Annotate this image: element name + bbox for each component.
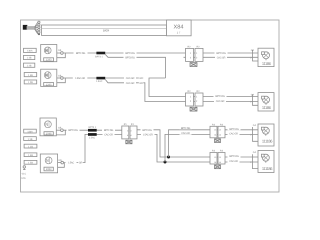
svg-text:BPT2-RG: BPT2-RG (125, 52, 135, 55)
harness end dot (38, 33, 40, 35)
connector tag 2B (24, 80, 37, 84)
svg-text:BPT2-RG: BPT2-RG (104, 129, 114, 132)
earth symbol (23, 166, 26, 170)
svg-text:1 7: 1 7 (177, 31, 181, 34)
wire Q color tag (78, 161, 83, 164)
shielding splice 3 (88, 129, 97, 132)
wire Q label 1 (66, 161, 77, 164)
harness loom box B424 (42, 25, 167, 35)
connector tag 1C (24, 63, 35, 67)
lamp 6 connector bracket (253, 154, 259, 168)
svg-text:1.5AC: 1.5AC (68, 162, 74, 165)
injector 2 connector bracket (253, 94, 259, 105)
connector R34 lower code box (215, 165, 221, 169)
svg-text:130A: 130A (27, 130, 33, 133)
svg-text:BPT3-RG: BPT3-RG (125, 56, 135, 59)
lamp 6 symbol (261, 154, 269, 163)
injector 1 connector bracket (253, 50, 259, 61)
svg-text:GR: GR (139, 82, 143, 85)
svg-text:X84: X84 (174, 25, 184, 31)
wire C label 2 (124, 77, 136, 80)
inline connector R107 (122, 123, 137, 139)
label BPT2-RG out6 (228, 155, 241, 158)
sensor 1295 symbol (44, 72, 51, 79)
sensor4 return loop (58, 163, 65, 168)
branch Q label (180, 132, 192, 135)
lamp 5 symbol (261, 127, 269, 136)
svg-text:CAC-GR: CAC-GR (181, 132, 190, 135)
pin bubble sensor3 (61, 129, 64, 132)
junction dot net Q (164, 161, 167, 164)
wire Q out of R107 (137, 134, 210, 162)
label CAC-GR out6 (228, 160, 240, 163)
svg-text:GA: GA (251, 93, 255, 96)
wire P label 2 (102, 129, 115, 132)
svg-text:1 3B: 1 3B (27, 57, 32, 60)
svg-text:1.5AC-GR: 1.5AC-GR (75, 77, 85, 80)
wire B label (124, 56, 137, 59)
pin stub sensor3 (56, 129, 60, 131)
wire P out label (141, 128, 154, 131)
svg-text:GA: GA (251, 49, 255, 52)
pin bubble sensor1 (61, 52, 64, 55)
svg-text:111186: 111186 (262, 166, 273, 171)
svg-text:1.5AC: 1.5AC (96, 80, 103, 83)
svg-text:CAC-GR: CAC-GR (229, 133, 238, 136)
svg-text:1048: 1048 (46, 133, 52, 136)
wire A label 2 (124, 52, 137, 55)
sensor2 return loop (57, 78, 66, 83)
svg-text:1 2B: 1 2B (27, 64, 32, 67)
inline connector R34 upper (210, 124, 225, 138)
harness ring terminals (38, 21, 40, 33)
injector 1 box (258, 48, 274, 66)
svg-text:GR: GR (139, 77, 143, 80)
wire P out of R107 (137, 130, 210, 157)
sensor 1083 symbol (45, 157, 52, 164)
svg-text:CAC-GR: CAC-GR (126, 77, 135, 80)
svg-text:11186: 11186 (262, 61, 272, 66)
svg-text:BPT2-RG: BPT2-RG (181, 127, 191, 130)
harness connector block (black) (23, 25, 28, 30)
svg-text:1 3B: 1 3B (28, 138, 33, 141)
wire net P (BPT2-RG) to R107 (63, 129, 122, 131)
svg-text:GR: GR (79, 162, 83, 165)
svg-text:CAC-GR: CAC-GR (216, 100, 225, 103)
svg-text:-11C: -11C (21, 172, 26, 175)
lamp 6 box (258, 151, 274, 173)
svg-text:1 6B: 1 6B (28, 154, 33, 157)
shielding splice 2 (96, 77, 105, 80)
svg-text:BPT2-RG: BPT2-RG (142, 129, 152, 132)
svg-text:BPT2-RG: BPT2-RG (229, 155, 239, 158)
svg-text:1.5AC-GR: 1.5AC-GR (143, 133, 153, 136)
sensor 1295 box (41, 69, 57, 86)
wire to injector2 pin2 (203, 101, 253, 103)
pin stub sensor4 (58, 162, 61, 164)
svg-text:CAC-GR: CAC-GR (104, 133, 113, 136)
wire R34 to lamp5 pin2 (225, 133, 253, 135)
svg-text:CAC-GR: CAC-GR (217, 56, 226, 59)
connector tag 3C (24, 144, 37, 148)
branch net P to R34 upper (169, 130, 211, 157)
sensor 1083 code box (44, 167, 53, 171)
inline connector R212 upper (184, 45, 204, 61)
wire R212 to injector1 pin2 (203, 56, 253, 58)
pin stub sensor2 (57, 77, 61, 79)
connector tag 1A (24, 48, 37, 52)
connector tag 1B (24, 55, 35, 59)
injector 2 lamp symbol (262, 96, 270, 105)
svg-text:1.5AC: 1.5AC (89, 137, 96, 140)
wire R212 to injector1 pin1 (203, 52, 253, 54)
branch net Q to R34 upper (165, 134, 210, 162)
svg-text:1 5B: 1 5B (28, 162, 33, 165)
sensor 1048 box (40, 118, 56, 136)
sensor 1295 code box (44, 83, 54, 86)
wire C end tag (139, 77, 144, 80)
wire D end tag (139, 82, 144, 85)
connector tag 3A (24, 129, 37, 133)
connector R212 lower code box (190, 107, 197, 111)
harness cable (27, 26, 35, 30)
wire A label 1 (74, 52, 88, 55)
inline connector R34 lower (210, 150, 225, 164)
label BPT2-RG out1 (215, 52, 228, 55)
svg-text:11186: 11186 (262, 105, 272, 110)
svg-text:1295: 1295 (46, 83, 52, 86)
title box X84 (167, 20, 192, 36)
sensor 1083 box (40, 154, 57, 173)
inline connector R212 lower (186, 90, 204, 106)
wire net C (CAC-GR) row2 (63, 77, 143, 79)
branch P label (179, 126, 192, 129)
drawing frame (21, 20, 280, 192)
svg-text:BPT3 1: BPT3 1 (88, 126, 96, 129)
lamp 5 box (258, 124, 274, 146)
label BPT2-RG out2 (214, 94, 227, 97)
svg-text:1083: 1083 (46, 168, 52, 171)
pin bubble sensor2 (61, 77, 64, 80)
label CAC-GR out5 (228, 132, 240, 135)
wire net D (shield drain row2) (105, 79, 185, 101)
sensor 1048 symbol (45, 121, 52, 128)
connector R212 code box (190, 63, 197, 67)
connector R34 upper code box (215, 139, 221, 143)
injector 2 box (258, 93, 274, 111)
svg-text:CAC-GR: CAC-GR (126, 82, 135, 85)
sensor 1283 symbol (44, 47, 51, 54)
sensor 1048 code box (44, 132, 53, 135)
svg-text:BPT2-RG: BPT2-RG (216, 52, 226, 55)
lamp 5 connector bracket (253, 127, 259, 141)
shielding splice 4 (88, 133, 97, 136)
svg-text:1D5: 1D5 (21, 177, 26, 180)
label BPT2-RG out5 (228, 127, 241, 130)
svg-text:1283: 1283 (46, 59, 52, 62)
svg-text:111186: 111186 (262, 139, 273, 144)
svg-text:BPT2-RG: BPT2-RG (68, 129, 78, 132)
wire Q label 2 (103, 133, 115, 136)
sensor1 return loop (57, 53, 66, 58)
wire R34 to lamp6 pin1 (225, 156, 253, 158)
connector tag 4A (24, 153, 37, 157)
svg-text:130A: 130A (27, 50, 33, 53)
svg-text:GA: GA (253, 151, 257, 154)
pin bubble sensor4 (61, 161, 64, 164)
wire R34 to lamp5 pin1 (225, 129, 253, 131)
wire net Q (1.5AC-GR) riser (64, 134, 123, 162)
junction dot net P (167, 156, 170, 159)
shielding splice 1 (96, 52, 105, 55)
connector tag 3B (24, 137, 37, 141)
wire net A (BPT2-RG) to connector R212 (63, 52, 185, 54)
svg-text:1 5B: 1 5B (28, 81, 33, 84)
svg-text:BPT3 1: BPT3 1 (95, 55, 103, 58)
svg-text:1 6B: 1 6B (28, 74, 33, 77)
label CAC-GR out2 (214, 99, 226, 102)
harness fan wires (35, 22, 38, 34)
wire net B (shield drain) (105, 54, 165, 78)
wire C drop to lower connector (149, 78, 186, 97)
svg-text:GA: GA (253, 124, 257, 127)
svg-text:BPT2-RG: BPT2-RG (229, 128, 239, 131)
wire C label 1 (73, 77, 88, 80)
svg-text:1 2B: 1 2B (28, 145, 33, 148)
svg-text:CAC-GR: CAC-GR (229, 160, 238, 163)
connector tag 4B (24, 160, 37, 164)
connector R107 code box (126, 140, 132, 144)
injector 1 lamp symbol (262, 52, 270, 61)
label CAC-GR out1 (215, 56, 227, 59)
wire to injector2 pin1 (203, 96, 253, 98)
wire R34 to lamp6 pin2 (225, 161, 253, 163)
svg-text:B424: B424 (103, 28, 110, 32)
pin stub sensor1 (57, 52, 61, 54)
wire D label (124, 81, 136, 84)
sensor3 return loop (56, 130, 65, 135)
svg-text:BPT2-RG: BPT2-RG (215, 95, 225, 98)
wire P label 1 (67, 129, 80, 132)
sensor 1283 box (41, 45, 57, 62)
wire Q out label (141, 133, 155, 136)
connector tag 2A (24, 73, 37, 77)
sensor 1283 code box (44, 58, 54, 61)
svg-text:BPT2-RG: BPT2-RG (76, 52, 86, 55)
